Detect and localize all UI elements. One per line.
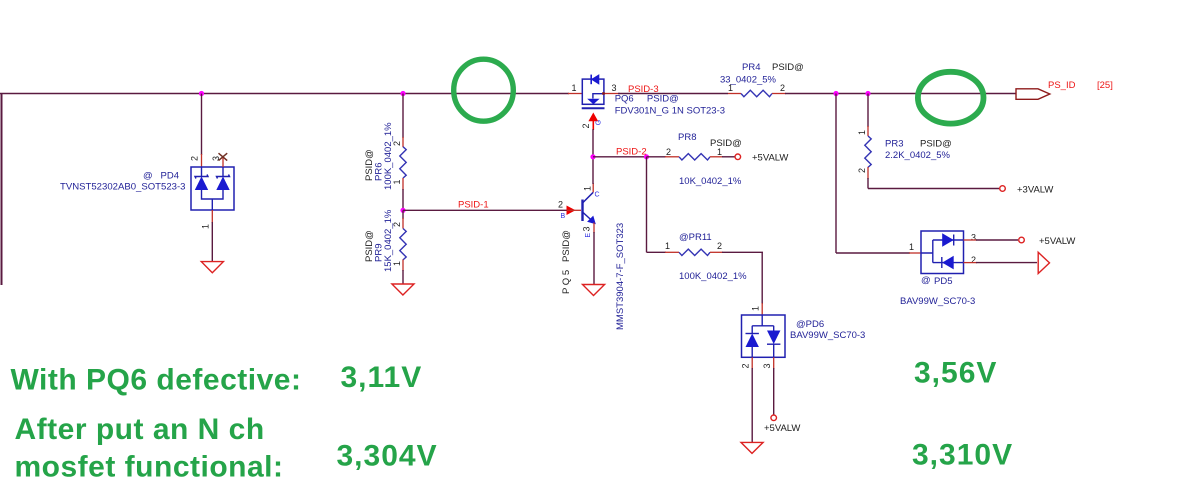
PQ5 emitter wire to ground — [593, 223, 595, 285]
svg-text:2: 2 — [741, 364, 751, 369]
svg-text:+5VALW: +5VALW — [752, 153, 788, 164]
wire: bus PR4 to PS_ID port — [772, 93, 1016, 95]
wire: branch down to PD5 — [836, 94, 921, 254]
wire: PR9 drop — [402, 210, 404, 228]
svg-text:2: 2 — [190, 156, 200, 161]
svg-text:[25]: [25] — [1097, 80, 1113, 91]
PD6 reference labels — [790, 319, 865, 341]
PR8 right lead to +5VALW — [710, 156, 735, 158]
svg-text:2: 2 — [581, 123, 591, 128]
svg-text:PSID@: PSID@ — [772, 62, 804, 73]
svg-text:PSID-1: PSID-1 — [458, 200, 489, 211]
PD5 pin1 label — [909, 242, 914, 252]
power terminal +3VALW — [1000, 184, 1054, 195]
diode pair PD5 — [921, 231, 964, 274]
off-page arrow (PD5 pin2) — [1038, 252, 1049, 273]
svg-text:1: 1 — [572, 83, 577, 93]
svg-text:2: 2 — [780, 83, 785, 93]
node junction at PR6 — [400, 91, 405, 96]
wire: PD4 pin2 drop — [201, 94, 203, 168]
PR3 lower lead — [868, 167, 999, 189]
svg-text:PR3: PR3 — [885, 139, 903, 150]
svg-text:3: 3 — [582, 227, 592, 232]
wire: PR11 to PD6 — [710, 252, 763, 315]
resistor PR11 — [679, 249, 710, 255]
svg-text:PSID@: PSID@ — [710, 138, 742, 149]
svg-text:2: 2 — [857, 168, 867, 173]
svg-text:3: 3 — [211, 156, 221, 161]
wire: main bus left segment — [0, 93, 582, 95]
PQ6 pin3 end dot — [602, 92, 605, 95]
PQ6 pin1 label — [572, 83, 577, 93]
wire: PR3 drop — [867, 94, 869, 137]
net label PSID-3 — [628, 84, 659, 95]
node junction at PD5 branch — [833, 91, 838, 96]
svg-text:FDV301N_G 1N SOT23-3: FDV301N_G 1N SOT23-3 — [615, 105, 725, 116]
wire: bus PQ6 source to PR4 — [604, 93, 741, 95]
annotation text: measurements — [11, 356, 1014, 483]
svg-text:10K_0402_1%: 10K_0402_1% — [679, 176, 742, 187]
power terminal +5VALW (PD6) — [764, 415, 800, 434]
svg-text:1: 1 — [665, 241, 670, 251]
svg-text:1: 1 — [909, 242, 914, 252]
resistor PR3 — [865, 136, 871, 167]
PD6 pin1 label — [751, 306, 761, 311]
PQ5 base pin labels — [558, 200, 566, 221]
node junction PSID-1 — [400, 208, 405, 213]
svg-text:@: @ — [921, 275, 931, 286]
svg-text:1: 1 — [717, 147, 722, 157]
svg-text:@PR11: @PR11 — [679, 232, 712, 243]
PQ5 emitter labels — [582, 227, 593, 238]
PQ6 gate annotation arrow — [588, 113, 598, 131]
svg-text:TVNST52302AB0_SOT523-3: TVNST52302AB0_SOT523-3 — [60, 182, 186, 193]
annotation circle left — [454, 59, 514, 121]
svg-text:PR8: PR8 — [678, 132, 696, 143]
svg-text:3: 3 — [612, 83, 617, 93]
svg-text:1: 1 — [751, 306, 761, 311]
svg-text:PR4: PR4 — [742, 62, 760, 73]
PQ6 gate pin labels — [581, 120, 603, 129]
PR8 labels — [666, 132, 742, 187]
PR6 lower lead — [402, 178, 404, 210]
resistor PR4 — [741, 90, 772, 96]
PD5 reference labels — [900, 275, 975, 307]
PQ5 collector labels — [583, 186, 600, 199]
svg-text:1: 1 — [583, 186, 593, 191]
svg-text:BAV99W_SC70-3: BAV99W_SC70-3 — [790, 330, 865, 341]
svg-text:1: 1 — [392, 179, 402, 184]
svg-text:1: 1 — [728, 83, 733, 93]
svg-text:PSID-3: PSID-3 — [628, 84, 659, 95]
PR4 labels — [720, 62, 804, 93]
PQ6 pin3 label — [612, 83, 617, 93]
svg-text:2: 2 — [717, 241, 722, 251]
net label PSID-1 — [458, 200, 489, 211]
node junction PSID-2 left — [590, 154, 595, 159]
resistor PR8 — [679, 154, 710, 160]
PR9 lower lead — [402, 260, 404, 285]
PQ6 reference labels — [615, 93, 725, 116]
PD4 pin3 no-connect X — [219, 153, 228, 160]
svg-text:3: 3 — [971, 233, 976, 243]
svg-text:3,56V: 3,56V — [914, 356, 997, 389]
svg-text:PD5: PD5 — [934, 276, 952, 287]
svg-text:1: 1 — [857, 130, 867, 135]
wire: net PSID-2 — [593, 156, 647, 158]
svg-text:2: 2 — [666, 147, 671, 157]
svg-text:2: 2 — [971, 255, 976, 265]
PR11 labels — [665, 232, 747, 282]
PR6 labels — [364, 122, 402, 190]
wire: PD4 pin1 to ground — [211, 210, 213, 261]
svg-text:MMST3904-7-F_SOT323: MMST3904-7-F_SOT323 — [615, 223, 626, 330]
PD6 pin2 pin3 labels — [741, 364, 773, 369]
svg-text:2: 2 — [392, 141, 402, 146]
PQ5 reference labels — [561, 223, 626, 330]
off-page port PS_ID — [1016, 80, 1113, 99]
svg-text:+3VALW: +3VALW — [1017, 184, 1053, 195]
svg-text:3: 3 — [762, 364, 772, 369]
node junction at PD4 — [199, 91, 204, 96]
PQ5 collector wire up to PSID-2 — [592, 157, 594, 193]
transistor Q PQ5 — [583, 192, 595, 223]
PD4 reference label — [60, 171, 186, 193]
svg-text:3,310V: 3,310V — [912, 438, 1013, 471]
PR3 labels — [857, 130, 952, 173]
svg-text:P Q 5 PSID@: P Q 5 PSID@ — [561, 230, 572, 294]
svg-text:G: G — [596, 120, 603, 125]
svg-text:2: 2 — [558, 200, 563, 210]
TVS diode PD4 — [191, 156, 234, 210]
node junction PSID-2 right — [644, 154, 649, 159]
svg-text:PSID-2: PSID-2 — [616, 147, 647, 158]
svg-text:With PQ6 defective:: With PQ6 defective: — [11, 364, 302, 397]
wire: PR6 drop from bus — [402, 94, 404, 148]
svg-text:PSID@: PSID@ — [920, 139, 952, 150]
svg-text:2.2K_0402_5%: 2.2K_0402_5% — [885, 150, 951, 161]
MOSFET PQ6 — [582, 75, 605, 109]
wire: PD6 pin3 to +5VALW — [773, 357, 775, 414]
ground under PD4 — [201, 262, 223, 273]
svg-text:E: E — [585, 233, 592, 238]
diode pair PD6 — [742, 315, 786, 357]
net label PSID-2 — [616, 147, 647, 158]
wire: net PSID-1 — [403, 209, 568, 211]
svg-text:3,304V: 3,304V — [337, 440, 438, 473]
wire: PSID-2 to PR8 — [647, 156, 680, 158]
svg-text:1: 1 — [392, 261, 402, 266]
annotation arrow at PQ5 base — [567, 206, 582, 216]
PR9 labels — [364, 209, 402, 272]
PD4 pin labels — [190, 156, 222, 229]
power terminal +5VALW (PD5) — [1019, 236, 1076, 247]
ground under PD6 — [741, 442, 763, 453]
resistor PR6 — [400, 147, 406, 178]
node junction at PR3 — [865, 91, 870, 96]
svg-text:1: 1 — [201, 224, 211, 229]
wire: PD5 pin3 to +5VALW — [964, 233, 1019, 243]
ground under PR9 — [392, 284, 414, 295]
svg-text:@PD6: @PD6 — [796, 319, 824, 330]
wire: PD5 pin2 to off-page — [964, 255, 1038, 265]
svg-text:100K_0402_1%: 100K_0402_1% — [679, 271, 747, 282]
sheet border (left edge) — [1, 94, 3, 286]
svg-text:3,11V: 3,11V — [341, 361, 423, 394]
svg-text:+5VALW: +5VALW — [764, 423, 800, 434]
power terminal +5VALW (PR8) — [735, 153, 788, 164]
svg-text:C: C — [595, 192, 600, 199]
wire: PD6 pin2 to ground — [751, 357, 753, 442]
annotation circle right — [918, 72, 984, 124]
svg-text:PS_ID: PS_ID — [1048, 80, 1076, 91]
resistor PR9 — [400, 229, 406, 260]
svg-text:After put an N ch: After put an N ch — [15, 413, 265, 446]
svg-text:mosfet functional:: mosfet functional: — [15, 451, 284, 484]
svg-text:@ PD4: @ PD4 — [143, 171, 179, 182]
svg-text:2: 2 — [392, 222, 402, 227]
PQ6 gate wire — [592, 129, 594, 157]
svg-text:BAV99W_SC70-3: BAV99W_SC70-3 — [900, 296, 975, 307]
svg-text:+5VALW: +5VALW — [1039, 236, 1075, 247]
wire: PSID-2 branch down to PR11 — [647, 157, 680, 253]
svg-text:B: B — [561, 213, 566, 220]
ground under PQ5 — [583, 285, 605, 296]
